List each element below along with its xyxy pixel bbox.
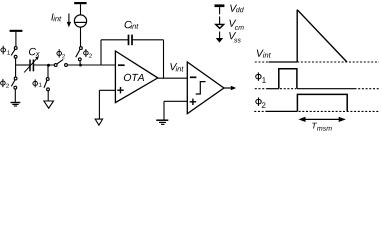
V_int sawtooth ramp — [297, 10, 347, 62]
label T_msm — [312, 123, 317, 129]
phi1 baseline dashed left — [255, 88, 267, 90]
wire: switch to ground — [14, 89, 16, 102]
legend Vcm symbol — [219, 16, 221, 24]
switch phi1 (top-left) — [14, 47, 17, 50]
wire: switch to Vcm symbol — [47, 91, 49, 101]
label V_int (node) — [170, 63, 177, 70]
comparator hysteresis step symbol — [196, 82, 206, 94]
wire: node down to phi2 switch — [15, 65, 17, 77]
label OTA — [124, 74, 144, 81]
phi2 baseline dashed right — [299, 110, 380, 112]
phi2 pulse — [297, 94, 347, 111]
comparator — [187, 62, 224, 114]
label phi1 (waveform) — [256, 74, 261, 79]
current source I_int (circle with bar) — [74, 15, 86, 27]
label C_int — [125, 21, 132, 28]
legend Vss symbol — [219, 32, 221, 39]
label phi1 (top-left) — [1, 48, 6, 52]
switch phi1 (middle, to Vcm) — [46, 78, 49, 81]
switch phi2 (current source) — [80, 47, 83, 50]
wire: comparator + to ground — [164, 100, 187, 102]
label phi1 (middle) — [33, 81, 38, 85]
phi1 baseline dashed under pulse — [280, 88, 296, 90]
label phi2 (series) — [57, 51, 62, 55]
ground (3-bar) comparator — [156, 119, 168, 121]
Vcm symbol (open triangle, OTA +) — [95, 119, 102, 125]
wire: rail to OTA — [67, 64, 115, 66]
switch phi2 (left, to ground) — [14, 77, 17, 80]
phi1 pulse — [279, 69, 297, 89]
OTA minus sign — [118, 64, 125, 66]
label phi2 (waveform) — [256, 99, 261, 104]
wire: switch to rail node — [15, 58, 17, 65]
feedback wire top left — [101, 39, 128, 41]
wire: OTA + input to Vcm — [99, 89, 115, 91]
Vdd plate terminal (current source) — [74, 2, 86, 4]
legend label V_dd — [230, 5, 237, 12]
T_msm measurement arrow — [300, 118, 345, 120]
ground (3-bar) left — [11, 102, 21, 104]
switch phi2 (series in rail) — [54, 64, 57, 67]
legend Vdd symbol — [215, 4, 225, 7]
legend label V_ss — [229, 32, 236, 39]
label V_int (waveform) — [257, 50, 264, 57]
label phi2 (left) — [1, 81, 6, 85]
phi1 baseline solid right — [297, 88, 355, 90]
label phi2 (current source) — [84, 51, 89, 55]
OTA plus sign — [117, 89, 123, 91]
node junction dot (phi1 branch) — [47, 64, 50, 67]
legend label V_cm — [229, 20, 236, 27]
capacitor C_int — [128, 35, 130, 46]
wire: rail left segment — [16, 64, 30, 66]
phi1 baseline solid left — [267, 88, 279, 90]
V_int baseline dashed right — [297, 61, 379, 63]
wire: current source to switch — [80, 27, 82, 47]
V_int baseline dashed left — [255, 61, 269, 63]
label I_int — [51, 14, 53, 21]
wire: OTA output — [158, 77, 188, 79]
phi1 baseline dashed right — [355, 88, 380, 90]
V_int baseline solid — [269, 61, 298, 63]
Vdd plate terminal (top-left) — [10, 30, 23, 32]
node junction dot (current source) — [79, 64, 82, 67]
wire: rail Cx to series switch — [33, 64, 54, 66]
wire: switch to rail — [79, 61, 81, 65]
comparator output wire with arrow — [224, 87, 231, 89]
phi2 baseline solid left — [266, 110, 298, 112]
comparator minus sign — [190, 76, 197, 78]
feedback wire top right — [132, 39, 164, 41]
V_int sawtooth rise — [296, 10, 298, 62]
feedback wire up — [100, 40, 102, 65]
phi2 baseline dashed left — [254, 110, 265, 112]
Vcm symbol (open triangle, middle) — [44, 101, 54, 108]
op-amp OTA — [115, 51, 157, 103]
feedback wire down to output — [163, 40, 165, 78]
I_int arrow — [68, 14, 70, 23]
wire: junction down to phi1 switch — [47, 65, 49, 78]
comparator plus sign — [190, 101, 196, 103]
label Cx — [29, 48, 36, 55]
capacitor Cx (variable) — [29, 60, 31, 72]
